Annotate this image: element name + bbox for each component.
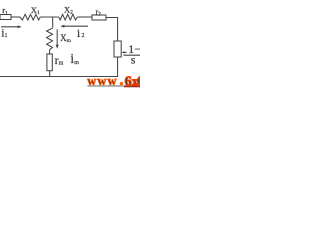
svg-text:im: im (70, 52, 79, 67)
resistor rm (magnetizing resistance box) (47, 54, 52, 71)
wire r1 to X1 (11, 16, 20, 18)
label rm (55, 53, 64, 67)
svg-text:www: www (87, 74, 118, 88)
svg-text:rm: rm (55, 53, 64, 67)
current arrow im (down arrow) (56, 29, 58, 46)
wire X1 to X2 with junction (40, 16, 58, 18)
leader arrow to load box (124, 51, 127, 53)
svg-text:X2: X2 (64, 4, 73, 15)
label i1 (1, 26, 7, 40)
svg-text:X1: X1 (31, 5, 40, 16)
label X2 (64, 4, 73, 15)
wire load box to bottom rail (117, 57, 119, 77)
current arrow i2 (63, 25, 88, 27)
resistor (1-s)/s r2 (load box, right branch) (114, 41, 121, 57)
svg-text:i2: i2 (77, 26, 85, 40)
wire r2 to right corner (106, 18, 118, 42)
resistor r2 (rotor resistance box) (92, 15, 106, 20)
svg-text:6: 6 (125, 74, 132, 89)
svg-text:i1: i1 (1, 26, 7, 40)
fraction bar (124, 54, 141, 56)
label r2 (96, 7, 102, 17)
svg-text:r2: r2 (96, 7, 102, 17)
label X1 (31, 5, 40, 16)
label r1 (2, 5, 8, 16)
label Xm (60, 33, 72, 44)
current arrow i1 (1, 26, 19, 28)
resistor r1 (stator resistance box) (0, 15, 11, 20)
bottom rail wire (0, 76, 118, 78)
wire junction down from top rail (52, 17, 54, 28)
svg-text:s: s (131, 53, 136, 67)
inductor X1 (stator leakage reactance zigzag) (20, 14, 40, 20)
label im (70, 52, 79, 67)
svg-text:Xm: Xm (60, 33, 72, 44)
inductor X2 (rotor leakage reactance zigzag) (59, 14, 78, 20)
wire rm to bottom rail (49, 71, 51, 77)
watermark 6x6 (125, 74, 144, 89)
inductor Xm (magnetizing reactance, vertical zigzag) (47, 28, 53, 54)
watermark shadow band (87, 85, 124, 87)
label fraction (1-s)/s (128, 42, 146, 66)
svg-text:r1: r1 (2, 5, 8, 16)
svg-text:6: 6 (137, 74, 140, 89)
label i2 (77, 26, 85, 40)
wire X2 to r2 (77, 16, 92, 18)
